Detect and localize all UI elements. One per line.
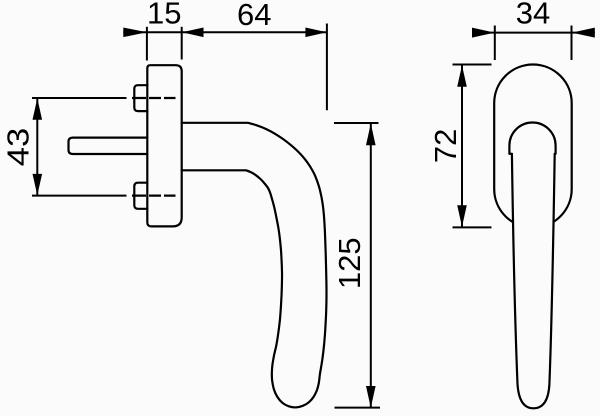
dimension 34 extension line left xyxy=(494,26,496,61)
dimension 34 line xyxy=(472,32,595,34)
handle grip (front view) xyxy=(512,154,555,408)
spindle xyxy=(69,138,148,154)
dimension 15 extension line right xyxy=(181,27,183,60)
dimension 72 bottom extension line xyxy=(453,226,492,228)
svg-text:64: 64 xyxy=(237,0,271,32)
svg-text:15: 15 xyxy=(147,0,181,30)
screw bottom centerline (dashed) xyxy=(132,195,176,197)
rosette plate (side view) xyxy=(147,65,181,226)
dimension 125 bottom extension line xyxy=(335,407,381,409)
arrow 72 down xyxy=(457,205,467,227)
screw top centerline (dashed) xyxy=(132,97,176,99)
rosette (front view) xyxy=(494,65,572,228)
arrow 43 down xyxy=(33,174,43,196)
svg-text:72: 72 xyxy=(428,129,463,163)
dimension 43 bottom extension line xyxy=(32,195,127,197)
svg-text:43: 43 xyxy=(0,128,35,167)
dimension 43 top extension line xyxy=(32,97,127,99)
screw bottom (side view) xyxy=(134,183,147,209)
dimension 72 top extension line xyxy=(453,64,492,66)
screw top (side view) xyxy=(134,85,147,111)
svg-text:34: 34 xyxy=(516,0,550,31)
dimension 43 line xyxy=(36,98,38,196)
dimension 64 extension line right xyxy=(326,24,328,111)
arrow 72 up xyxy=(457,65,467,87)
dimension 125 top extension line xyxy=(334,122,379,124)
dimension 72 line xyxy=(461,65,463,228)
arrow 15 outside left xyxy=(123,28,147,38)
arrow 125 up xyxy=(366,124,376,146)
arrow 34 outside left xyxy=(472,28,495,38)
arrow 64 right xyxy=(305,28,327,38)
arrow 64 left xyxy=(182,28,204,38)
dimension 125 line xyxy=(370,123,372,408)
dimension 15 extension line left xyxy=(146,27,148,61)
arrow 125 down xyxy=(366,386,376,408)
svg-text:125: 125 xyxy=(332,237,367,289)
dimension 15/64 line xyxy=(123,31,327,33)
dimension 34 extension line right xyxy=(571,26,573,61)
handle neck arch (front view) xyxy=(509,123,555,154)
arrow 34 outside right xyxy=(572,28,595,38)
handle (side view) xyxy=(182,123,327,408)
arrow 43 up xyxy=(33,98,43,120)
